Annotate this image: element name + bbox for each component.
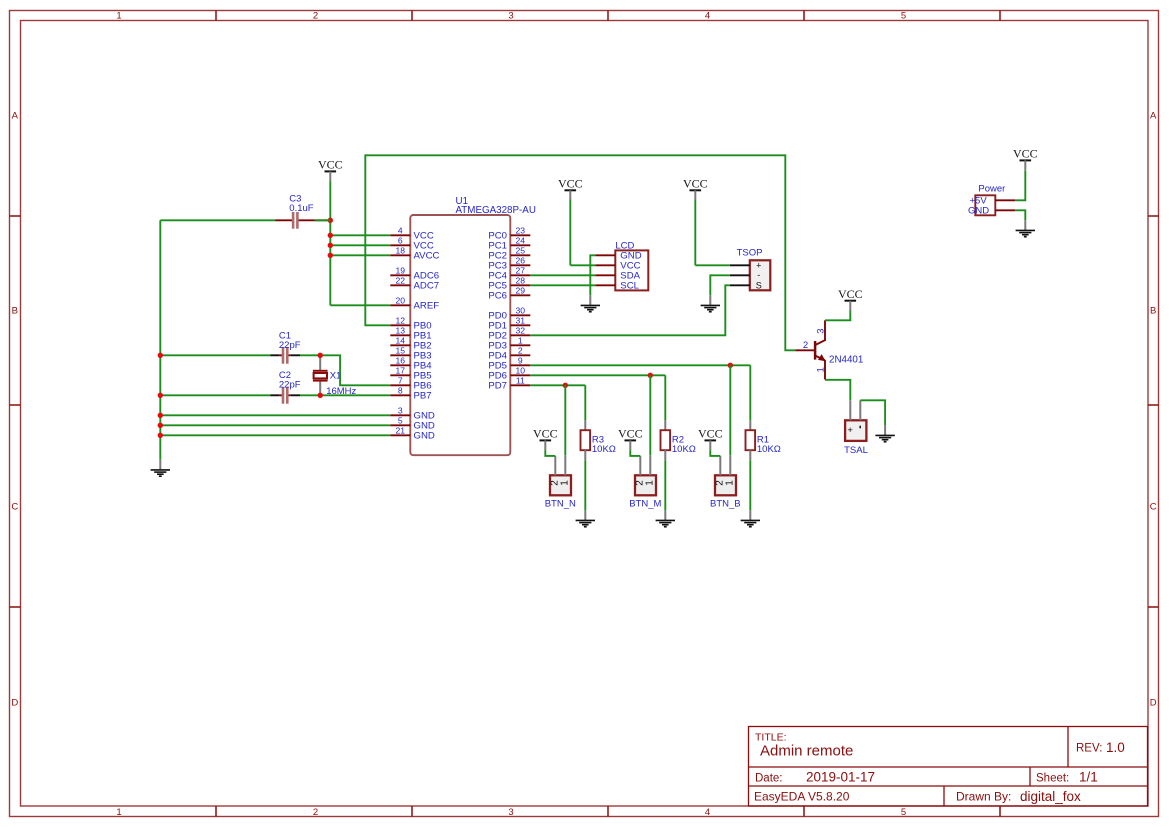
wire SDA to pin 27 <box>530 274 595 276</box>
junction X1 top <box>318 353 323 358</box>
wire LCD GND to ground <box>590 255 595 295</box>
junction X1 bottom <box>318 393 323 398</box>
svg-text:1: 1 <box>116 807 121 818</box>
U1 pin 26 PC3 <box>488 255 530 271</box>
svg-text:PD7: PD7 <box>488 381 507 392</box>
svg-text:Date:: Date: <box>755 772 783 784</box>
svg-text:1: 1 <box>816 367 827 372</box>
wire Q1 emitter to TSAL <box>825 380 850 401</box>
svg-text:11: 11 <box>516 375 525 385</box>
svg-text:32: 32 <box>516 325 526 335</box>
svg-text:VCC: VCC <box>558 177 583 191</box>
wire Q1 collector to VCC <box>825 310 850 320</box>
svg-text:2: 2 <box>313 807 318 818</box>
svg-text:1: 1 <box>725 480 736 486</box>
svg-text:3: 3 <box>508 807 513 818</box>
title block <box>749 727 1148 807</box>
junction VCC pin6 <box>328 243 333 248</box>
svg-text:13: 13 <box>396 325 406 335</box>
U1 pin 28 PC5 <box>488 275 530 291</box>
connector LCD <box>615 241 648 291</box>
svg-text:23: 23 <box>516 225 526 235</box>
wire TSOP S to pin 32 <box>530 285 730 335</box>
LCD pin VCC <box>595 261 640 272</box>
svg-text:20: 20 <box>396 295 406 305</box>
wire BTN_B pin1 up <box>729 365 731 455</box>
svg-text:digital_fox: digital_fox <box>1020 789 1081 804</box>
svg-text:1.0: 1.0 <box>1106 740 1125 755</box>
svg-text:Drawn By:: Drawn By: <box>956 790 1011 804</box>
LCD pin GND <box>595 251 641 262</box>
wire R2 bottom to ground <box>664 460 666 510</box>
svg-text:VCC: VCC <box>838 287 863 301</box>
push button BTN_B <box>710 455 741 509</box>
push button BTN_N <box>545 455 576 509</box>
power flag VCC (TSOP) <box>683 177 708 201</box>
svg-text:10KΩ: 10KΩ <box>757 444 781 455</box>
wire TSOP - to ground <box>710 275 730 295</box>
ground (R2) <box>656 510 675 526</box>
svg-text:3: 3 <box>816 328 827 333</box>
U1 pin 31 PD1 <box>488 315 530 331</box>
svg-text:BTN_N: BTN_N <box>545 499 576 510</box>
wire R1 bottom to ground <box>749 460 751 510</box>
wire SCL to pin 28 <box>530 284 595 286</box>
junction BTN_B net <box>728 363 733 368</box>
junction BTN_M net <box>648 373 653 378</box>
junction GND pin3 <box>158 413 163 418</box>
svg-text:19: 19 <box>396 265 406 275</box>
svg-text:VCC: VCC <box>533 427 558 441</box>
wire R2 top <box>664 375 666 420</box>
wire BTN_M pin1 up <box>649 375 651 455</box>
svg-text:28: 28 <box>516 275 526 285</box>
power flag VCC (BTN_B) <box>698 427 723 451</box>
svg-text:REV:: REV: <box>1076 743 1102 755</box>
U1 pin 15 PB3 <box>390 345 431 361</box>
svg-text:18: 18 <box>396 245 406 255</box>
wire GND rail vertical <box>159 220 161 459</box>
svg-text:TSOP: TSOP <box>737 247 763 258</box>
capacitor C1 22pF <box>270 331 301 364</box>
svg-text:27: 27 <box>516 265 526 275</box>
TSOP pin + <box>730 264 750 266</box>
wire BTN_N pin1 up <box>564 385 566 455</box>
svg-text:22: 22 <box>396 275 406 285</box>
wire VCC to TSOP + h <box>695 264 730 266</box>
wire VCC to LCD VCC <box>569 200 571 265</box>
wire VCC to pin 18 <box>330 254 390 256</box>
svg-text:5: 5 <box>901 807 906 818</box>
LCD pin SCL <box>595 281 639 292</box>
svg-text:8: 8 <box>398 385 403 395</box>
wire C2/X1 to pin 8 <box>300 394 390 396</box>
wire C1 to X1 node <box>300 354 320 356</box>
wire R3 top <box>584 385 586 420</box>
Power pin GND <box>995 209 1015 211</box>
wire VCC to BTN_N pin2 <box>545 450 555 456</box>
svg-text:12: 12 <box>396 315 406 325</box>
power flag VCC (Q1 collector) <box>838 287 863 311</box>
svg-text:PC6: PC6 <box>488 291 507 302</box>
svg-text:VCC: VCC <box>318 158 343 172</box>
U1 pin 21 GND <box>390 425 435 441</box>
svg-text:1: 1 <box>518 335 523 345</box>
Power pin +5V <box>995 199 1015 201</box>
svg-text:14: 14 <box>396 335 406 345</box>
power flag VCC (LCD) <box>558 177 583 201</box>
junction BTN_N net <box>563 383 568 388</box>
svg-text:25: 25 <box>516 245 526 255</box>
svg-text:5: 5 <box>901 10 906 21</box>
wire TSAL cathode to ground <box>860 400 885 425</box>
junction GND pin5 <box>158 423 163 428</box>
wire GND to pin 21 <box>160 434 390 436</box>
power flag VCC (BTN_M) <box>618 427 643 451</box>
svg-text:15: 15 <box>396 345 406 355</box>
wire XTAL1 to pin 7 <box>320 355 390 385</box>
U1 pin 32 PD2 <box>488 325 530 341</box>
wire GND to pin 5 <box>160 424 390 426</box>
ground (TSOP) <box>701 295 720 311</box>
svg-text:1: 1 <box>116 10 121 21</box>
svg-text:VCC: VCC <box>1013 147 1038 161</box>
svg-text:-: - <box>757 270 760 280</box>
svg-text:10: 10 <box>516 365 526 375</box>
wire Power GND to ground <box>1015 210 1025 220</box>
wire VCC to BTN_M pin2 <box>630 450 640 456</box>
svg-text:24: 24 <box>516 235 526 245</box>
junction GND pin21 <box>158 433 163 438</box>
U1 pin 25 PC2 <box>488 245 530 261</box>
svg-text:D: D <box>11 697 18 708</box>
svg-text:1: 1 <box>560 480 571 486</box>
svg-text:VCC: VCC <box>618 427 643 441</box>
svg-text:GND: GND <box>968 205 989 216</box>
push button BTN_M <box>629 455 661 509</box>
svg-text:ATMEGA328P-AU: ATMEGA328P-AU <box>456 205 536 216</box>
svg-text:S: S <box>756 281 762 291</box>
svg-text:GND: GND <box>414 431 435 442</box>
svg-text:C: C <box>11 501 18 512</box>
crystal X1 16MHz <box>313 355 357 397</box>
power flag VCC (BTN_N) <box>533 427 558 451</box>
svg-text:5: 5 <box>398 415 403 425</box>
ground (main GND rail) <box>151 460 170 476</box>
svg-text:TSAL: TSAL <box>844 445 868 456</box>
wire R3 bottom to ground <box>584 460 586 510</box>
svg-text:2N4401: 2N4401 <box>829 355 863 366</box>
wire VCC to LCD VCC h <box>570 264 595 266</box>
svg-text:7: 7 <box>398 375 403 385</box>
svg-text:D: D <box>1150 697 1157 708</box>
junction VCC pin4 <box>328 233 333 238</box>
svg-text:16: 16 <box>396 355 406 365</box>
wire C3 left to GND rail <box>160 219 275 221</box>
wire C2 left <box>160 394 270 396</box>
transistor Q1 2N4401 <box>795 320 863 379</box>
svg-text:PB7: PB7 <box>414 391 432 402</box>
junction GND/C2 <box>158 393 163 398</box>
svg-text:A: A <box>1150 110 1157 121</box>
svg-text:+: + <box>847 425 853 436</box>
svg-text:VCC: VCC <box>698 427 723 441</box>
svg-text:2: 2 <box>803 340 808 351</box>
U1 pin 8 PB7 <box>390 385 431 401</box>
LCD pin SDA <box>595 271 640 282</box>
connector TSOP <box>737 247 771 290</box>
wire VCC to Power +5V <box>1015 170 1025 200</box>
svg-text:BTN_B: BTN_B <box>710 499 741 510</box>
wire VCC to pin 4 <box>330 234 390 236</box>
wire PB0 to Q1 base <box>365 155 795 350</box>
wire VCC to pin 6 <box>330 244 390 246</box>
svg-text:30: 30 <box>516 305 526 315</box>
svg-text:B: B <box>1150 305 1156 316</box>
wire C3 right to VCC node <box>315 219 331 221</box>
svg-text:BTN_M: BTN_M <box>629 499 661 510</box>
junction GND/C1 <box>158 353 163 358</box>
U1 pin 23 PC0 <box>488 225 530 241</box>
resistor R1 10K <box>746 420 781 460</box>
U1 pin 20 AREF <box>390 295 439 311</box>
ground (Power conn) <box>1016 220 1035 236</box>
U1 pin 3 GND <box>390 405 435 421</box>
U1 pin 13 PB1 <box>390 325 431 341</box>
ground (R1) <box>741 510 760 526</box>
ground (TSAL) <box>875 425 894 441</box>
svg-text:10KΩ: 10KΩ <box>672 444 696 455</box>
U1 pin 1 PD3 <box>488 335 530 351</box>
svg-text:1: 1 <box>645 480 656 486</box>
IC U1 ATMEGA328P-AU <box>410 196 536 455</box>
svg-text:1/1: 1/1 <box>1079 770 1098 785</box>
U1 pin 27 PC4 <box>488 265 530 281</box>
svg-text:4: 4 <box>398 225 403 235</box>
junction C3/VCC <box>328 218 333 223</box>
TSOP pin - <box>730 274 750 276</box>
resistor R3 10K <box>581 420 616 460</box>
svg-text:10KΩ: 10KΩ <box>592 444 616 455</box>
ground (R3) <box>576 510 595 526</box>
svg-text:C: C <box>1150 501 1157 512</box>
U1 pin 14 PB2 <box>390 335 431 351</box>
svg-text:4: 4 <box>705 10 710 21</box>
U1 pin 2 PD4 <box>488 345 530 361</box>
U1 pin 7 PB6 <box>390 375 431 391</box>
wire VCC to TSOP + <box>694 200 696 265</box>
junction VCC pin18 <box>328 253 333 258</box>
svg-text:SCL: SCL <box>620 281 639 292</box>
LED TSAL <box>844 400 868 456</box>
U1 pin 29 PC6 <box>488 285 530 301</box>
svg-text:29: 29 <box>516 285 526 295</box>
svg-text:AREF: AREF <box>414 301 440 312</box>
capacitor C2 22pF <box>270 370 301 404</box>
svg-text:2: 2 <box>518 345 523 355</box>
resistor R2 10K <box>661 420 696 460</box>
U1 pin 12 PB0 <box>390 315 431 331</box>
svg-text:3: 3 <box>398 405 403 415</box>
svg-text:2019-01-17: 2019-01-17 <box>806 770 875 785</box>
U1 pin 6 VCC <box>390 235 434 251</box>
svg-text:VCC: VCC <box>683 177 708 191</box>
wire pin 10 to R2 column <box>530 374 665 376</box>
TSOP pin S <box>730 284 750 286</box>
U1 pin 5 GND <box>390 415 435 431</box>
U1 pin 19 ADC6 <box>390 265 439 281</box>
U1 pin 24 PC1 <box>488 235 530 251</box>
wire R1 top <box>749 365 751 420</box>
capacitor C3 0.1uF <box>275 194 330 229</box>
svg-text:ADC7: ADC7 <box>414 281 440 292</box>
power flag VCC (U1 supply) <box>318 158 343 182</box>
wire AREF to pin 20 <box>330 304 390 306</box>
svg-text:Sheet:: Sheet: <box>1036 772 1069 784</box>
svg-text:6: 6 <box>398 235 403 245</box>
svg-text:A: A <box>12 110 19 121</box>
wire C1 left <box>160 354 270 356</box>
U1 pin 9 PD5 <box>488 355 530 371</box>
wire pin 9 to R1 column <box>530 364 750 366</box>
svg-text:9: 9 <box>518 355 523 365</box>
svg-text:3: 3 <box>508 10 513 21</box>
svg-text:22pF: 22pF <box>279 340 301 351</box>
svg-text:2: 2 <box>313 10 318 21</box>
svg-text:0.1uF: 0.1uF <box>289 203 313 214</box>
svg-text:AVCC: AVCC <box>414 251 440 262</box>
power flag VCC (Power conn) <box>1013 147 1038 171</box>
U1 pin 30 PD0 <box>488 305 530 321</box>
wire VCC vertical to U1 <box>329 181 331 305</box>
svg-text:Power: Power <box>978 184 1005 195</box>
wire GND to pin 3 <box>160 414 390 416</box>
svg-text:4: 4 <box>705 807 710 818</box>
wire VCC to BTN_B pin2 <box>710 450 720 456</box>
svg-text:Admin remote: Admin remote <box>760 743 853 760</box>
connector Power <box>968 184 1005 217</box>
U1 pin 18 AVCC <box>390 245 439 261</box>
svg-text:17: 17 <box>396 365 406 375</box>
wire pin 11 to R3 column <box>530 384 585 386</box>
svg-text:B: B <box>12 305 18 316</box>
svg-text:21: 21 <box>396 425 406 435</box>
U1 pin 22 ADC7 <box>390 275 439 291</box>
U1 pin 11 PD7 <box>488 375 530 391</box>
svg-text:EasyEDA V5.8.20: EasyEDA V5.8.20 <box>754 790 850 804</box>
U1 pin 10 PD6 <box>488 365 530 381</box>
ground (LCD) <box>581 295 600 311</box>
svg-text:22pF: 22pF <box>279 379 301 390</box>
U1 pin 16 PB4 <box>390 355 432 371</box>
svg-text:31: 31 <box>516 315 526 325</box>
svg-text:26: 26 <box>516 255 526 265</box>
U1 pin 17 PB5 <box>390 365 431 381</box>
U1 pin 4 VCC <box>390 225 434 241</box>
